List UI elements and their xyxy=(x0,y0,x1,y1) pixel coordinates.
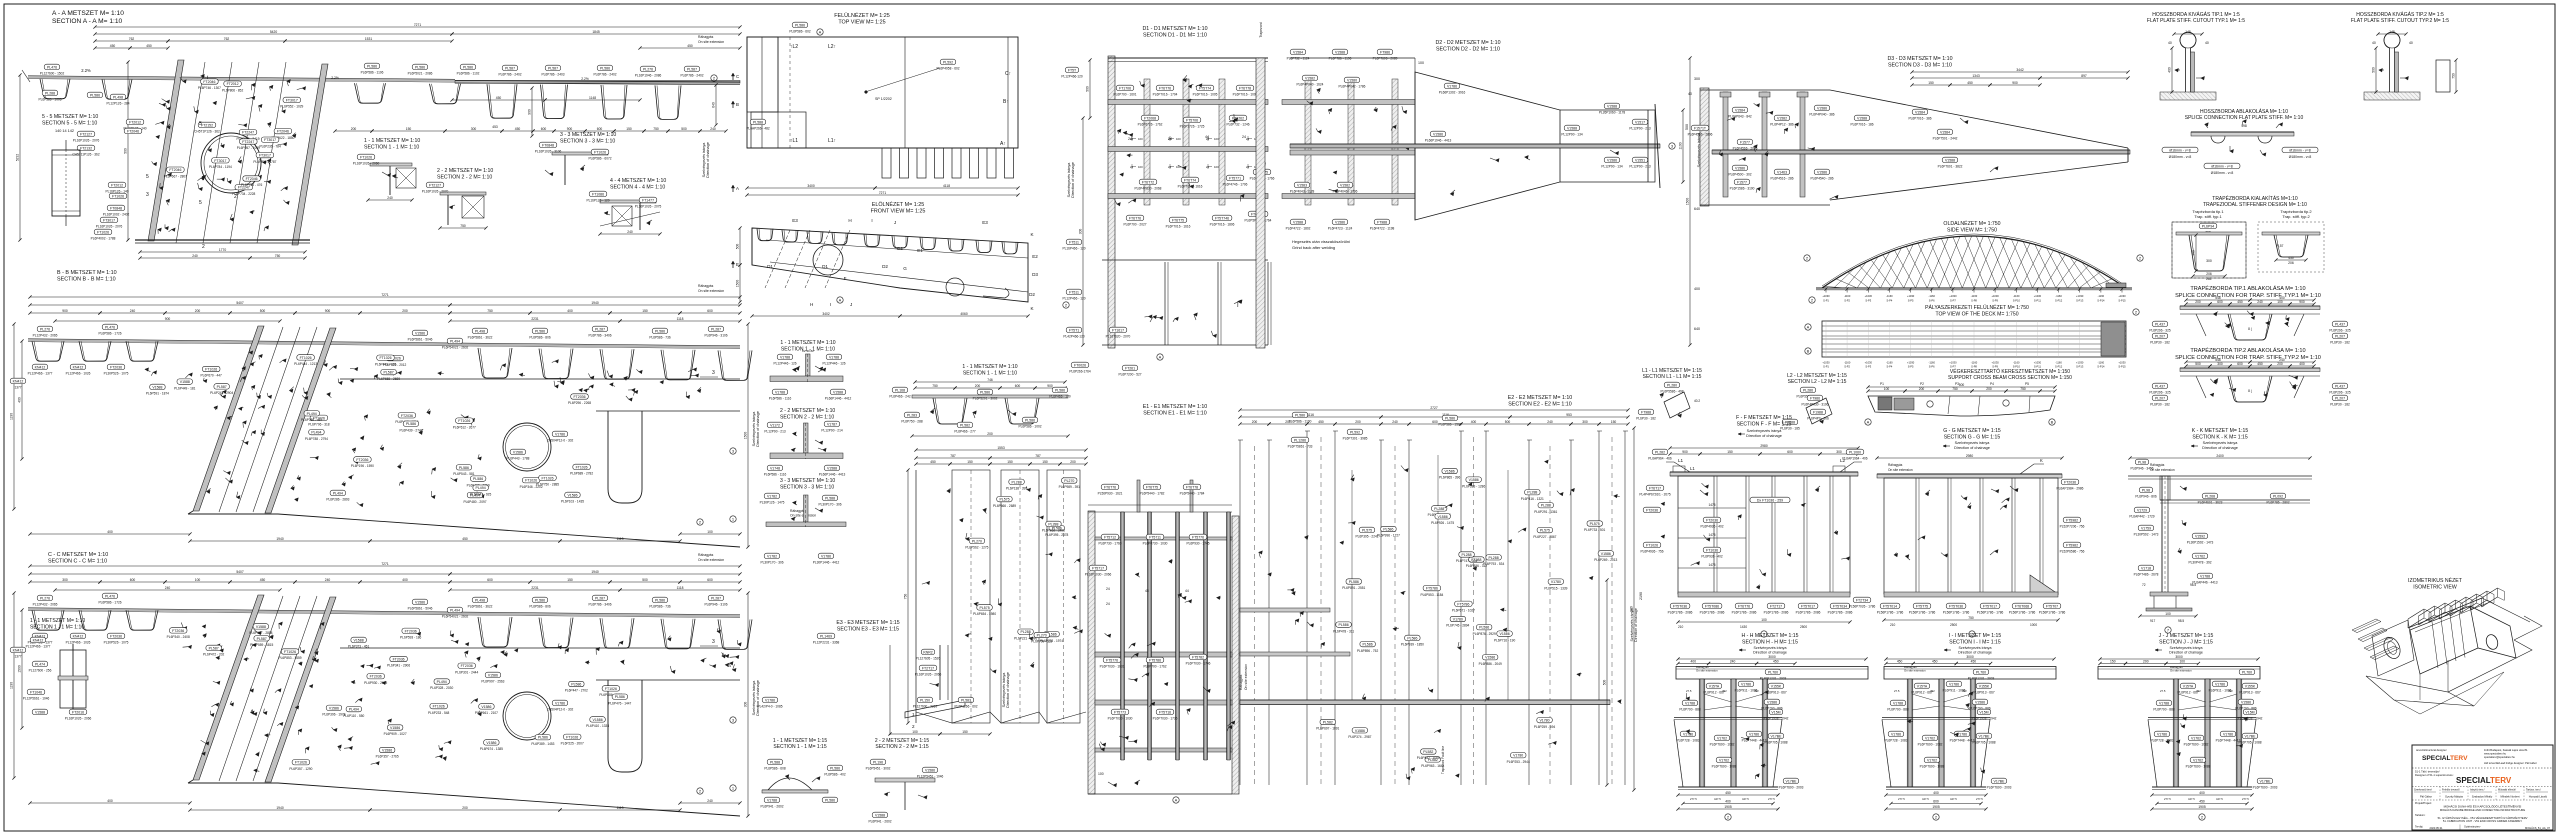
svg-text:240: 240 xyxy=(165,586,171,590)
svg-text:3000: 3000 xyxy=(1768,655,1776,659)
svg-text:24: 24 xyxy=(1106,587,1110,591)
svg-text:V1586: V1586 xyxy=(1355,729,1365,733)
svg-text:PL6P296 - 325: PL6P296 - 325 xyxy=(2329,391,2350,395)
svg-text:V1588: V1588 xyxy=(1335,50,1345,54)
svg-text:3400: 3400 xyxy=(807,184,815,188)
svg-text:140 14 142: 140 14 142 xyxy=(55,129,74,133)
svg-text:PL476: PL476 xyxy=(105,325,115,329)
svg-text:D2: D2 xyxy=(897,246,903,251)
svg-text:P5: P5 xyxy=(2025,382,2029,386)
svg-text:-1160: -1160 xyxy=(1928,294,1935,298)
svg-text:450: 450 xyxy=(1318,420,1324,424)
svg-text:PL6P410 - 1338: PL6P410 - 1338 xyxy=(586,724,609,728)
svg-text:452: 452 xyxy=(2196,689,2201,693)
svg-text:500: 500 xyxy=(2372,67,2376,73)
svg-text:PL276: PL276 xyxy=(643,67,653,71)
svg-text:V1762: V1762 xyxy=(2195,554,2205,558)
svg-text:TERV: TERV xyxy=(2490,776,2512,785)
svg-text:PL6P5021 - 2086: PL6P5021 - 2086 xyxy=(408,72,433,76)
svg-text:PL6P586 - 1116: PL6P586 - 1116 xyxy=(769,397,792,401)
svg-text:Trapezord: Trapezord xyxy=(1259,22,1263,37)
svg-text:450: 450 xyxy=(2288,256,2294,260)
svg-text:PL6AP1964 - 406: PL6AP1964 - 406 xyxy=(1842,457,1867,461)
svg-text:PL12P446 - 126: PL12P446 - 126 xyxy=(822,362,845,366)
svg-text:FT5T1: FT5T1 xyxy=(1069,328,1079,332)
svg-text:PL12P466 - 1026: PL12P466 - 1026 xyxy=(66,372,91,376)
svg-text:PL6P736 - 1787: PL6P736 - 1787 xyxy=(253,160,276,164)
svg-text:PL586: PL586 xyxy=(825,798,835,802)
svg-text:PL6P4746 - 1706: PL6P4746 - 1706 xyxy=(1223,183,1248,187)
svg-text:3: 3 xyxy=(146,192,149,198)
svg-text:1100: 1100 xyxy=(1679,142,1683,149)
svg-text:S-P1: S-P1 xyxy=(1823,299,1829,303)
svg-text:PL575: PL575 xyxy=(1540,529,1550,533)
svg-text:640: 640 xyxy=(712,102,716,108)
svg-text:V1748: V1748 xyxy=(770,466,780,470)
svg-text:PL6P697 - 1891: PL6P697 - 1891 xyxy=(1316,727,1339,731)
svg-text:FT986: FT986 xyxy=(1810,396,1820,400)
svg-text:100: 100 xyxy=(1761,618,1767,622)
svg-text:PL6P728 - 1083: PL6P728 - 1083 xyxy=(1676,739,1699,743)
svg-text:PL12P90 - 134: PL12P90 - 134 xyxy=(1601,165,1622,169)
svg-text:+1030: +1030 xyxy=(1991,294,1999,298)
svg-text:FT1026: FT1026 xyxy=(458,419,470,423)
svg-text:PL6P4P0 - 306: PL6P4P0 - 306 xyxy=(1807,417,1829,421)
svg-text:Projekt/Project:: Projekt/Project: xyxy=(2415,802,2432,805)
svg-text:E1 - E1 METSZET M= 1:10: E1 - E1 METSZET M= 1:10 xyxy=(1143,404,1208,410)
svg-text:FT5T014: FT5T014 xyxy=(1883,604,1897,608)
svg-text:D1: D1 xyxy=(822,264,828,269)
svg-text:PL6P1266 - 602: PL6P1266 - 602 xyxy=(954,705,977,709)
svg-text:51-1 Tábl. tervezője/: 51-1 Tábl. tervezője/ xyxy=(2415,770,2440,774)
svg-text:A: A xyxy=(1159,355,1162,360)
svg-text:FT0848: FT0848 xyxy=(110,206,122,210)
svg-text:Trapezord Fault line: Trapezord Fault line xyxy=(1441,746,1445,774)
svg-text:2980: 2980 xyxy=(1966,454,1974,458)
svg-text:Felelős tervező/: Felelős tervező/ xyxy=(2442,789,2460,792)
svg-text:FT5T036: FT5T036 xyxy=(1949,604,1963,608)
svg-text:PL6P296 - 325: PL6P296 - 325 xyxy=(2329,329,2350,333)
svg-text:5: 5 xyxy=(199,121,202,127)
svg-text:PL52P6586 - 756: PL52P6586 - 756 xyxy=(2060,550,2085,554)
svg-text:FT2046: FT2046 xyxy=(169,168,181,172)
svg-text:FT2247: FT2247 xyxy=(242,140,254,144)
svg-text:PL6AP442 - 1729: PL6AP442 - 1729 xyxy=(2129,515,2154,519)
svg-text:300: 300 xyxy=(1836,450,1842,454)
svg-text:PL280: PL280 xyxy=(1667,383,1677,387)
svg-text:PL6P7600 - 1088: PL6P7600 - 1088 xyxy=(1712,765,1737,769)
svg-text:PL6P4P042 - 1786: PL6P4P042 - 1786 xyxy=(1339,85,1366,89)
svg-text:40: 40 xyxy=(2168,41,2172,45)
svg-text:V1762: V1762 xyxy=(1719,758,1729,762)
svg-text:1500: 1500 xyxy=(18,665,22,673)
svg-text:PL6P913 - 667: PL6P913 - 667 xyxy=(2239,691,2260,695)
svg-text:1905: 1905 xyxy=(1932,805,1940,809)
svg-text:PL6P586 - 6072: PL6P586 - 6072 xyxy=(588,157,611,161)
svg-text:1940: 1940 xyxy=(276,806,284,810)
svg-text:On site extension: On site extension xyxy=(1244,664,1248,690)
svg-text:FT6T17: FT6T17 xyxy=(1649,486,1661,490)
svg-text:V1584: V1584 xyxy=(1735,108,1745,112)
svg-text:400: 400 xyxy=(1691,659,1697,663)
svg-text:V15M: V15M xyxy=(1771,710,1780,714)
svg-text:PL12P126 - 284: PL12P126 - 284 xyxy=(106,102,129,106)
svg-text:PL437: PL437 xyxy=(2155,322,2165,326)
svg-text:Hegesztés után visszaköszörüln: Hegesztés után visszaköszörülni xyxy=(1292,239,1350,244)
svg-text:1430: 1430 xyxy=(1740,625,1747,629)
svg-text:B: B xyxy=(736,102,739,107)
svg-text:PL6P926 - 1475: PL6P926 - 1475 xyxy=(1431,521,1454,525)
svg-text:PL288: PL288 xyxy=(1461,553,1471,557)
svg-text:FT2T34: FT2T34 xyxy=(1856,598,1868,602)
svg-text:5: 5 xyxy=(199,200,202,206)
svg-text:PL16P126 - 120: PL16P126 - 120 xyxy=(586,199,609,203)
svg-text:4118: 4118 xyxy=(943,184,950,188)
svg-text:PL12P5661 - 1046: PL12P5661 - 1046 xyxy=(23,697,50,701)
svg-text:PL587: PL587 xyxy=(217,385,227,389)
svg-text:447.5: 447.5 xyxy=(1742,797,1749,801)
svg-text:V1788: V1788 xyxy=(775,390,785,394)
svg-text:PL6P7016 - 1616: PL6P7016 - 1616 xyxy=(1166,225,1191,229)
svg-text:PL498: PL498 xyxy=(475,598,485,602)
svg-text:PL6P853 - 1659: PL6P853 - 1659 xyxy=(278,656,301,660)
svg-text:762: 762 xyxy=(224,37,230,41)
svg-text:640: 640 xyxy=(1694,327,1700,331)
svg-text:-1160: -1160 xyxy=(2013,361,2020,365)
svg-text:447.5: 447.5 xyxy=(1950,797,1957,801)
svg-text:150: 150 xyxy=(967,460,973,464)
svg-text:PL6P7606 - 2089: PL6P7606 - 2089 xyxy=(1373,57,1398,61)
svg-text:FT511: FT511 xyxy=(1069,290,1079,294)
svg-text:E2 - E2 METSZET M= 1:10: E2 - E2 METSZET M= 1:10 xyxy=(1508,395,1573,401)
svg-text:PL494: PL494 xyxy=(450,608,460,612)
svg-text:PL476: PL476 xyxy=(105,594,115,598)
svg-text:210: 210 xyxy=(1678,625,1684,629)
svg-text:500: 500 xyxy=(124,148,128,154)
svg-text:400: 400 xyxy=(1725,799,1731,803)
svg-text:S-P15: S-P15 xyxy=(2118,299,2126,303)
svg-text:PL586: PL586 xyxy=(1383,528,1393,532)
svg-text:PL66P1446 - 4413: PL66P1446 - 4413 xyxy=(819,473,846,477)
svg-text:PL6P225 - 2007: PL6P225 - 2007 xyxy=(561,742,584,746)
svg-text:150: 150 xyxy=(1928,81,1934,85)
svg-text:SECTION 1 - 1 M= 1:15: SECTION 1 - 1 M= 1:15 xyxy=(773,744,826,750)
svg-text:FT5T74: FT5T74 xyxy=(1199,86,1211,90)
svg-text:KN412: KN412 xyxy=(13,379,24,383)
svg-text:300: 300 xyxy=(471,127,477,131)
svg-text:400: 400 xyxy=(107,799,113,803)
svg-text:SECTION K - K M= 1:15: SECTION K - K M= 1:15 xyxy=(2192,434,2248,440)
svg-text:900: 900 xyxy=(567,127,573,131)
svg-text:PL6P340 - 2408: PL6P340 - 2408 xyxy=(167,635,190,639)
svg-text:FT5T017: FT5T017 xyxy=(1801,604,1815,608)
svg-text:PL586: PL586 xyxy=(795,23,805,27)
svg-text:PL6AP643 - 842: PL6AP643 - 842 xyxy=(1728,115,1752,119)
svg-text:S-P2: S-P2 xyxy=(1844,299,1850,303)
svg-text:FT5706: FT5706 xyxy=(1186,118,1198,122)
svg-text:PL586: PL586 xyxy=(655,329,665,333)
svg-text:-1160: -1160 xyxy=(1928,361,1935,365)
svg-text:PL1060: PL1060 xyxy=(1849,450,1861,454)
svg-text:450: 450 xyxy=(1897,659,1903,663)
svg-text:Tartósz. terv./: Tartósz. terv./ xyxy=(2526,789,2541,792)
svg-text:450: 450 xyxy=(1725,791,1731,795)
svg-text:PL6P243 - 2904: PL6P243 - 2904 xyxy=(210,391,233,395)
svg-text:FT2012: FT2012 xyxy=(111,183,123,187)
svg-text:FT2036: FT2036 xyxy=(370,675,382,679)
svg-text:CH504P12-0 - 302: CH504P12-0 - 302 xyxy=(547,708,574,712)
svg-text:Ráhagyás: Ráhagyás xyxy=(698,284,714,288)
svg-text:PL6P1786 - 2086: PL6P1786 - 2086 xyxy=(1796,611,1821,615)
svg-text:PL6P559 - 1815: PL6P559 - 1815 xyxy=(250,643,273,647)
svg-text:PL1469: PL1469 xyxy=(820,634,832,638)
svg-text:1531: 1531 xyxy=(365,37,373,41)
svg-text:FT2T17: FT2T17 xyxy=(1770,604,1782,608)
svg-text:100: 100 xyxy=(195,578,201,582)
svg-text:PL16P1002 - 2402: PL16P1002 - 2402 xyxy=(103,213,130,217)
svg-text:FT5982: FT5982 xyxy=(2066,543,2078,547)
svg-text:PL494: PL494 xyxy=(476,486,486,490)
svg-text:SECTION H - H M= 1:15: SECTION H - H M= 1:15 xyxy=(1742,639,1798,645)
svg-text:PL6P7030 - 1631: PL6P7030 - 1631 xyxy=(1100,665,1125,669)
svg-text:R,57: R,57 xyxy=(2277,244,2284,248)
svg-text:+1030: +1030 xyxy=(2034,361,2042,365)
svg-text:1113: 1113 xyxy=(617,537,624,541)
svg-text:FT2046: FT2046 xyxy=(246,177,258,181)
svg-text:FT2T17: FT2T17 xyxy=(922,666,934,670)
svg-text:PL6P7030 - 1746: PL6P7030 - 1746 xyxy=(1186,662,1211,666)
svg-text:2231: 2231 xyxy=(531,317,539,321)
svg-text:PL276: PL276 xyxy=(40,327,50,331)
svg-text:PL16P1026 - 2060: PL16P1026 - 2060 xyxy=(353,162,380,166)
svg-text:FT6T75: FT6T75 xyxy=(1146,485,1158,489)
svg-text:PL283: PL283 xyxy=(907,413,917,417)
svg-text:FLAT PLATE STIFF. CUTOUT TYP.1: FLAT PLATE STIFF. CUTOUT TYP.1 M= 1:5 xyxy=(2147,18,2245,24)
svg-text:PL6P373 - 451: PL6P373 - 451 xyxy=(348,645,369,649)
svg-text:FT1086: FT1086 xyxy=(592,192,604,196)
svg-text:PL6P236 - 784: PL6P236 - 784 xyxy=(259,144,280,148)
svg-text:V1759: V1759 xyxy=(2141,526,2151,530)
svg-text:450: 450 xyxy=(2199,799,2205,803)
svg-text:S-P9: S-P9 xyxy=(1992,365,1998,369)
svg-text:2: 2 xyxy=(912,724,915,729)
svg-text:300: 300 xyxy=(62,578,68,582)
svg-text:PL6AP266 - 482: PL6AP266 - 482 xyxy=(746,127,770,131)
svg-text:V1788: V1788 xyxy=(2159,701,2169,705)
svg-text:SECTION L1 - L1 M= 1:15: SECTION L1 - L1 M= 1:15 xyxy=(1643,374,1702,380)
svg-text:PL6P5861 - 5046: PL6P5861 - 5046 xyxy=(408,607,433,611)
svg-text:PL6P586 - 736: PL6P586 - 736 xyxy=(649,336,670,340)
svg-text:TRAPEZIODAL STIFFENER DESIGN M: TRAPEZIODAL STIFFENER DESIGN M= 1:10 xyxy=(2203,202,2307,208)
svg-text:PL12P466 - 1377: PL12P466 - 1377 xyxy=(28,372,53,376)
svg-text:PL6P341 - 2906: PL6P341 - 2906 xyxy=(387,664,410,668)
svg-text:PL6P939 - 1850: PL6P939 - 1850 xyxy=(1401,643,1424,647)
svg-text:1940: 1940 xyxy=(591,301,599,305)
svg-text:750: 750 xyxy=(904,594,908,600)
svg-text:PL6P747 - 304: PL6P747 - 304 xyxy=(1456,559,1477,563)
svg-text:PL586: PL586 xyxy=(1295,413,1305,417)
svg-text:450: 450 xyxy=(110,44,116,48)
svg-text:FT6T78: FT6T78 xyxy=(1186,485,1198,489)
svg-text:PL6P732 - 1246: PL6P732 - 1246 xyxy=(1226,123,1249,127)
svg-text:400: 400 xyxy=(1471,420,1477,424)
svg-text:40: 40 xyxy=(2372,41,2376,45)
svg-text:-1160: -1160 xyxy=(2013,294,2020,298)
svg-text:PL6P259 - 694: PL6P259 - 694 xyxy=(1534,725,1555,729)
svg-text:TRAPÉZBORDA KIALAKÍTÁS M=1:10: TRAPÉZBORDA KIALAKÍTÁS M=1:10 xyxy=(2212,195,2298,202)
svg-text:FT5T: FT5T xyxy=(1068,68,1077,72)
svg-text:PL6P4540 - 286: PL6P4540 - 286 xyxy=(1810,177,1833,181)
svg-text:PL6P296 - 325: PL6P296 - 325 xyxy=(2149,329,2170,333)
svg-text:PL6P716 - 190: PL6P716 - 190 xyxy=(1494,638,1515,642)
svg-text:PL760: PL760 xyxy=(1768,670,1778,674)
svg-text:CH5T1P126 - 362: CH5T1P126 - 362 xyxy=(194,130,220,134)
svg-text:746: 746 xyxy=(987,378,993,382)
svg-text:V1584: V1584 xyxy=(1293,50,1303,54)
svg-text:S-P6: S-P6 xyxy=(1929,365,1935,369)
svg-text:FT5712: FT5712 xyxy=(1104,535,1116,539)
svg-text:100: 100 xyxy=(1214,165,1219,169)
svg-text:H: H xyxy=(848,218,851,223)
svg-text:277.5: 277.5 xyxy=(1690,797,1697,801)
svg-text:FT5782: FT5782 xyxy=(1192,655,1204,659)
svg-text:PL6P30 - 182: PL6P30 - 182 xyxy=(1636,417,1656,421)
svg-text:PL287: PL287 xyxy=(711,327,721,331)
svg-text:PL588: PL588 xyxy=(753,120,763,124)
svg-text:FT1026: FT1026 xyxy=(594,150,606,154)
svg-text:40.2: 40.2 xyxy=(1694,399,1700,403)
svg-text:2400: 2400 xyxy=(2216,454,2224,458)
svg-text:Direction of chainage: Direction of chainage xyxy=(706,142,710,178)
svg-text:PL586: PL586 xyxy=(1025,418,1035,422)
svg-text:FT3017: FT3017 xyxy=(103,218,115,222)
svg-text:PL288: PL288 xyxy=(1434,507,1444,511)
svg-text:+1030: +1030 xyxy=(1907,294,1915,298)
svg-text:V1588: V1588 xyxy=(180,380,190,384)
svg-text:Direction of chainage: Direction of chainage xyxy=(1071,162,1075,198)
svg-text:SECTION E2 - E2 M= 1:10: SECTION E2 - E2 M= 1:10 xyxy=(1508,402,1571,408)
svg-text:PL6P472 - 202: PL6P472 - 202 xyxy=(203,653,224,657)
svg-text:I - I METSZET M= 1:15: I - I METSZET M= 1:15 xyxy=(1949,633,2002,639)
svg-text:Szelvényezés iránya: Szelvényezés iránya xyxy=(1747,429,1783,433)
svg-text:98.5: 98.5 xyxy=(2178,619,2184,623)
svg-text:PL6P930 - 1745: PL6P930 - 1745 xyxy=(1186,542,1209,546)
svg-text:PL6P7600 - 2003: PL6P7600 - 2003 xyxy=(1779,786,1804,790)
svg-text:2.2%: 2.2% xyxy=(581,77,589,81)
svg-text:Direction of chainage: Direction of chainage xyxy=(1954,446,1990,450)
svg-text:750: 750 xyxy=(1968,616,1974,620)
svg-text:400: 400 xyxy=(2168,67,2172,73)
svg-text:7271: 7271 xyxy=(381,562,389,566)
svg-text:FT3017: FT3017 xyxy=(286,98,298,102)
svg-text:PL52P7206 - 756: PL52P7206 - 756 xyxy=(2060,525,2085,529)
svg-text:PL6P110 - 550: PL6P110 - 550 xyxy=(343,714,364,718)
svg-text:2190: 2190 xyxy=(1639,592,1643,600)
svg-text:PL6P612 - 2677: PL6P612 - 2677 xyxy=(453,425,476,429)
svg-text:1 - 1 METSZET M= 1:10: 1 - 1 METSZET M= 1:10 xyxy=(30,618,85,624)
svg-text:1 - 1 METSZET M= 1:15: 1 - 1 METSZET M= 1:15 xyxy=(773,738,827,744)
svg-text:500: 500 xyxy=(642,578,648,582)
svg-text:PL586: PL586 xyxy=(1445,416,1455,420)
svg-text:V17BE: V17BE xyxy=(1979,734,1991,738)
svg-text:TERV: TERV xyxy=(2450,755,2468,762)
svg-text:KN412: KN412 xyxy=(13,648,24,652)
svg-text:PL6P4936 - 756: PL6P4936 - 756 xyxy=(1640,550,1663,554)
svg-text:PL494: PL494 xyxy=(450,339,460,343)
svg-text:40: 40 xyxy=(1688,92,1692,96)
svg-text:FT2046: FT2046 xyxy=(277,130,289,134)
svg-text:PL207: PL207 xyxy=(2335,334,2345,338)
svg-text:F - F METSZET M= 1:15: F - F METSZET M= 1:15 xyxy=(1736,415,1792,421)
svg-text:24: 24 xyxy=(1168,137,1172,141)
svg-text:PL12P466 - 1377: PL12P466 - 1377 xyxy=(26,645,51,649)
svg-text:SECTION F - F M= 1:15: SECTION F - F M= 1:15 xyxy=(1737,421,1792,427)
svg-text:PL6P30 - 182: PL6P30 - 182 xyxy=(2330,341,2350,345)
svg-text:V1586: V1586 xyxy=(513,450,523,454)
svg-text:450: 450 xyxy=(2237,300,2243,304)
svg-text:S-P7: S-P7 xyxy=(1950,299,1956,303)
svg-text:V1786: V1786 xyxy=(821,554,831,558)
svg-text:L1↑: L1↑ xyxy=(828,138,836,144)
svg-text:V1762: V1762 xyxy=(1925,736,1935,740)
svg-text:FT1026: FT1026 xyxy=(295,761,307,765)
svg-text:PL12P432 - 2065: PL12P432 - 2065 xyxy=(33,603,58,607)
svg-text:PL6P416 - 1321: PL6P416 - 1321 xyxy=(1521,497,1544,501)
svg-text:PL6P705 - 1088: PL6P705 - 1088 xyxy=(2238,741,2261,745)
svg-text:S-P11: S-P11 xyxy=(2034,365,2042,369)
svg-text:FT2046: FT2046 xyxy=(203,80,215,84)
svg-text:PL6P941 - 2602: PL6P941 - 2602 xyxy=(868,820,891,824)
svg-text:Direction of chainage: Direction of chainage xyxy=(2169,651,2203,655)
svg-text:V1592: V1592 xyxy=(2195,534,2205,538)
svg-text:FT2068: FT2068 xyxy=(1144,116,1156,120)
svg-text:PL6P266-1764: PL6P266-1764 xyxy=(1069,370,1090,374)
svg-text:FT2127: FT2127 xyxy=(80,132,92,136)
svg-text:FT1026: FT1026 xyxy=(541,476,553,480)
svg-text:S-P2: S-P2 xyxy=(1844,365,1850,369)
svg-text:98.5: 98.5 xyxy=(2190,583,2196,587)
svg-text:FT1026: FT1026 xyxy=(379,356,391,360)
svg-text:CH5T11P126 - 362: CH5T11P126 - 362 xyxy=(72,153,99,157)
svg-text:300: 300 xyxy=(2192,250,2196,256)
svg-text:PL6P989 - 391: PL6P989 - 391 xyxy=(1059,485,1080,489)
svg-text:V1582: V1582 xyxy=(1305,76,1315,80)
svg-text:1500: 1500 xyxy=(744,432,748,440)
svg-text:PL6P4P040 - 1624: PL6P4P040 - 1624 xyxy=(1297,83,1324,87)
svg-text:277.5: 277.5 xyxy=(2242,797,2249,801)
svg-text:PL6P357 - 1290: PL6P357 - 1290 xyxy=(289,767,312,771)
svg-text:V1786: V1786 xyxy=(1683,732,1693,736)
svg-text:PL6P4002 - 1788: PL6P4002 - 1788 xyxy=(91,237,116,241)
svg-text:500: 500 xyxy=(1086,86,1090,92)
svg-text:100: 100 xyxy=(912,730,918,734)
svg-text:PL6P700 - 1601: PL6P700 - 1601 xyxy=(1113,93,1136,97)
svg-text:V1782: V1782 xyxy=(767,554,777,558)
svg-text:Szelvényezés iránya: Szelvényezés iránya xyxy=(1754,646,1787,650)
svg-text:PL127600 - 256: PL127600 - 256 xyxy=(29,669,52,673)
svg-text:SECTION E3 - E3 M= 1:15: SECTION E3 - E3 M= 1:15 xyxy=(837,626,899,632)
svg-text:PL268: PL268 xyxy=(2205,494,2215,498)
svg-text:100: 100 xyxy=(1418,61,1424,65)
svg-text:V1586: V1586 xyxy=(488,673,498,677)
svg-text:Tervfaj:: Tervfaj: xyxy=(2415,826,2423,829)
svg-text:PL207: PL207 xyxy=(2155,396,2165,400)
svg-text:V1762: V1762 xyxy=(1927,758,1937,762)
svg-text:SECTION B - B M= 1:10: SECTION B - B M= 1:10 xyxy=(57,277,116,283)
svg-text:V1786: V1786 xyxy=(555,432,565,436)
svg-text:PL6P1938 - 2942: PL6P1938 - 2942 xyxy=(2238,717,2263,721)
svg-text:PL6P4P12 - 386: PL6P4P12 - 386 xyxy=(1770,123,1794,127)
